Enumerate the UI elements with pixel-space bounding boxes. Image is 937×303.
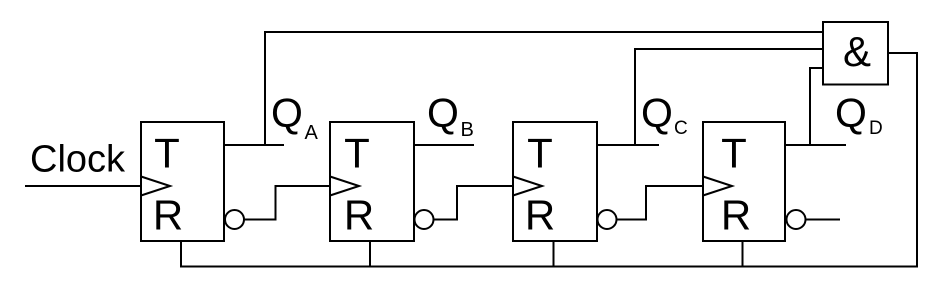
- AND gate U1 box: [823, 22, 888, 85]
- wire clock input: [25, 185, 141, 187]
- wire FF3 Qbar to FF4 clock: [617, 186, 703, 220]
- wire node QA vertical to top: [265, 32, 823, 145]
- svg-text:T: T: [344, 130, 370, 177]
- svg-text:T: T: [154, 130, 180, 177]
- FF2 clock triangle: [330, 177, 359, 196]
- svg-text:B: B: [461, 119, 474, 141]
- wire FF1 Q output: [224, 144, 284, 146]
- FF4 inverted output bubble: [787, 210, 806, 229]
- svg-text:R: R: [153, 192, 183, 239]
- wire FF4 reset tap: [742, 241, 744, 267]
- svg-text:R: R: [344, 192, 374, 239]
- wire FF4 Qbar stub: [806, 219, 840, 221]
- wire node QD vertical to AND input: [810, 68, 823, 145]
- wire node QC vertical to AND input: [635, 49, 823, 145]
- svg-text:Q: Q: [271, 90, 303, 136]
- svg-text:D: D: [869, 118, 883, 139]
- wire FF2 reset tap: [369, 241, 371, 267]
- svg-text:&: &: [843, 28, 871, 75]
- wire FF3 Q output: [597, 144, 659, 146]
- svg-text:Q: Q: [835, 90, 867, 136]
- wire AND output to reset rail: [181, 53, 917, 267]
- wire FF2 Qbar to FF3 clock: [434, 186, 513, 220]
- flip-flop FF3 box: [513, 122, 597, 241]
- wire FF1 Qbar to FF2 clock: [245, 186, 331, 220]
- FF4 clock triangle: [703, 177, 732, 196]
- svg-text:T: T: [527, 130, 553, 177]
- FF1 inverted output bubble: [225, 210, 244, 229]
- svg-text:Q: Q: [641, 90, 673, 136]
- wire FF2 Q output: [414, 144, 474, 146]
- svg-text:A: A: [305, 122, 319, 144]
- FF1 clock triangle: [141, 177, 170, 196]
- svg-text:R: R: [721, 192, 751, 239]
- flip-flop FF1 box: [141, 122, 224, 241]
- svg-text:T: T: [721, 130, 747, 177]
- flip-flop FF4 box: [703, 122, 785, 241]
- wire FF4 Q output: [785, 144, 846, 146]
- FF3 clock triangle: [513, 177, 542, 196]
- svg-text:R: R: [525, 192, 555, 239]
- wire FF3 reset tap: [553, 241, 555, 267]
- FF2 inverted output bubble: [415, 210, 434, 229]
- svg-text:C: C: [674, 118, 688, 139]
- flip-flop FF2 box: [330, 122, 414, 241]
- svg-text:Q: Q: [427, 90, 459, 136]
- FF3 inverted output bubble: [598, 210, 617, 229]
- svg-text:Clock: Clock: [30, 139, 126, 181]
